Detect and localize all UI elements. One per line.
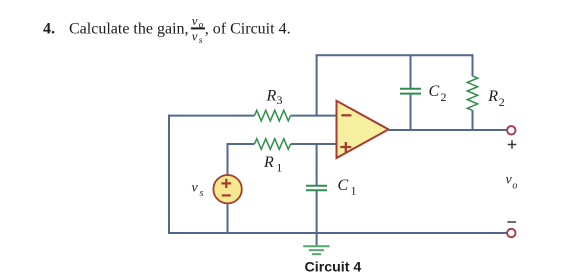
ground: [303, 246, 329, 254]
wire: feedback vertical from inverting node to top rail: [316, 54, 318, 116]
label vo: [506, 173, 518, 192]
terminal: bottom node: [507, 229, 515, 237]
voltage source vs: [213, 175, 241, 203]
wire: C1 branch vertical (from + input node down through capacitor to ground): [316, 143, 318, 245]
label R2: [487, 88, 505, 109]
wire: top feedback rail: [316, 54, 474, 56]
svg-text:1: 1: [351, 184, 357, 198]
wire: R1 line from source top to non-inverting input: [227, 143, 339, 145]
svg-text:4.: 4.: [43, 20, 55, 37]
wire: source bottom vertical: [227, 203, 229, 234]
svg-text:1: 1: [276, 160, 282, 174]
label vs: [192, 181, 204, 199]
wire: R2 branch vertical (top and bottom stubs): [472, 54, 474, 131]
label C2: [429, 83, 447, 104]
svg-text:R: R: [266, 87, 277, 104]
resistor R2: [467, 76, 477, 110]
label - at bottom terminal: [507, 221, 516, 223]
svg-text:s: s: [199, 36, 203, 46]
wire: C2 branch vertical: [410, 54, 412, 131]
capacitor C1: [306, 186, 327, 191]
svg-text:v: v: [192, 29, 198, 44]
title text: [43, 20, 291, 37]
svg-text:o: o: [512, 180, 517, 191]
svg-text:v: v: [192, 181, 199, 196]
svg-text:s: s: [200, 188, 204, 199]
wire: bottom rail: [168, 232, 507, 234]
fraction vo/vs in title: [191, 13, 205, 46]
wire: top-left horizontal to inverting input (R3 line): [168, 115, 338, 117]
svg-text:R: R: [487, 88, 498, 105]
svg-text:C: C: [338, 177, 349, 194]
svg-text:2: 2: [499, 95, 505, 109]
op-amp U1: [337, 101, 389, 158]
svg-text:Circuit 4: Circuit 4: [305, 260, 362, 276]
terminal: vo + output node: [507, 126, 515, 134]
label C1: [338, 177, 357, 198]
wire: source top vertical: [227, 143, 229, 176]
svg-text:v: v: [192, 13, 198, 28]
resistor R1: [255, 139, 291, 150]
label + at output terminal: [508, 140, 517, 149]
svg-text:3: 3: [277, 93, 283, 107]
label R3: [266, 87, 283, 107]
svg-text:R: R: [263, 154, 274, 171]
capacitor C2: [400, 89, 421, 94]
wire: left vertical branch: [168, 115, 170, 234]
svg-text:C: C: [429, 83, 440, 100]
label R1: [263, 154, 282, 175]
resistor R3: [255, 110, 291, 121]
wire: op-amp output to vo terminal: [387, 129, 507, 131]
svg-text:2: 2: [441, 90, 447, 104]
svg-text:Calculate the gain,: Calculate the gain,: [69, 20, 189, 37]
svg-text:, of Circuit 4.: , of Circuit 4.: [205, 20, 291, 37]
